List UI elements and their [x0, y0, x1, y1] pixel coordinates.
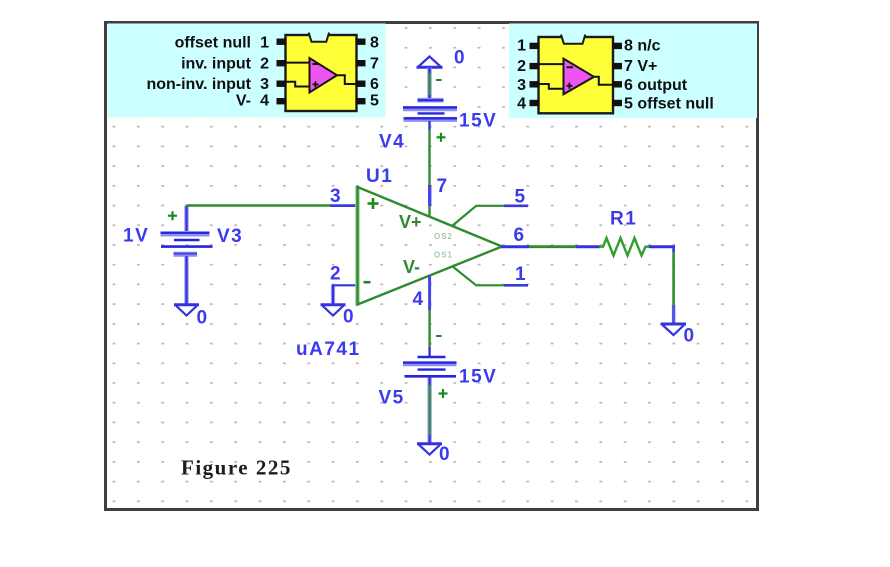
left DIP-8 inverting input trace: [286, 62, 310, 64]
wire op-amp pin 4: [428, 275, 431, 356]
left DIP-8 pin 1 stub: [277, 39, 287, 45]
svg-text:15V: 15V: [459, 367, 497, 388]
svg-text:V-: V-: [403, 257, 420, 277]
svg-text:6 output: 6 output: [624, 77, 688, 94]
ground at op-amp pin 2: [321, 305, 346, 316]
V5 plus mark: [439, 389, 448, 398]
wire V3 top lead: [184, 206, 188, 232]
ground below R1: [661, 324, 687, 335]
svg-text:5 offset null: 5 offset null: [624, 96, 714, 113]
svg-text:7: 7: [437, 176, 449, 197]
right DIP-8 left pin numbers 1-4: [517, 38, 526, 113]
svg-text:15V: 15V: [459, 111, 497, 132]
svg-text:0: 0: [343, 307, 355, 328]
right DIP-8 right pin labels: [624, 38, 714, 113]
svg-text:4: 4: [260, 93, 269, 110]
right DIP-8 output trace: [593, 77, 613, 85]
svg-text:6: 6: [514, 225, 526, 246]
right DIP-8 minus mark: [567, 66, 574, 68]
wire op-amp output pin 6: [501, 245, 600, 248]
svg-text:2: 2: [517, 58, 526, 75]
battery V3: [161, 233, 213, 255]
svg-text:1: 1: [517, 38, 526, 55]
svg-text:V3: V3: [217, 226, 243, 247]
svg-text:8: 8: [370, 35, 379, 52]
wire V5 to ground: [427, 378, 431, 444]
svg-text:4: 4: [517, 96, 526, 113]
left DIP-8 pin 2 stub: [277, 60, 287, 66]
left DIP-8 left pin numbers 1-4: [260, 35, 269, 110]
svg-text:V5: V5: [379, 388, 405, 409]
svg-text:U1: U1: [366, 166, 393, 187]
svg-text:OS2: OS2: [434, 232, 453, 241]
svg-text:8 n/c: 8 n/c: [624, 38, 661, 55]
wire corner down to ground: [672, 247, 675, 323]
svg-text:0: 0: [684, 326, 696, 347]
wire ground to V4: [427, 68, 431, 100]
right DIP-8 package body: [539, 37, 614, 113]
right DIP-8 pin 6 stub: [612, 81, 622, 87]
wire op-amp pin 5: [452, 206, 528, 226]
svg-text:4: 4: [413, 289, 425, 310]
svg-text:V+: V+: [399, 212, 422, 232]
U1 plus mark (pin 3 input): [368, 198, 379, 209]
right DIP-8 notch: [561, 35, 585, 44]
V5 minus mark: [436, 335, 442, 337]
left DIP-8 right pin numbers 8-5: [370, 35, 379, 110]
left DIP-8 pin 5 stub: [356, 98, 366, 104]
wire V4 to op-amp pin 7: [428, 121, 431, 217]
left DIP-8 plus mark: [313, 81, 319, 87]
right DIP-8 pin 4 stub: [530, 100, 540, 106]
left DIP-8 pin 3 stub: [277, 81, 287, 87]
svg-text:7: 7: [370, 56, 379, 73]
left DIP-8 pin 4 stub: [277, 98, 287, 104]
svg-text:uA741: uA741: [296, 339, 361, 360]
right DIP-8 non-inverting input trace: [539, 84, 564, 89]
left pinout cyan panel: [108, 24, 386, 118]
V4 minus mark: [436, 79, 442, 81]
ground below V5: [417, 444, 442, 455]
schematic frame border: [106, 23, 758, 510]
svg-text:inv. input: inv. input: [181, 56, 252, 73]
right pinout cyan panel: [509, 24, 757, 119]
svg-text:offset null: offset null: [175, 35, 251, 52]
svg-text:0: 0: [454, 48, 466, 69]
grid dots: [107, 24, 756, 508]
wire V3 to op-amp pin 3: [187, 204, 358, 207]
svg-text:Figure 225: Figure 225: [181, 456, 292, 480]
wire R1 to corner: [649, 245, 675, 248]
left DIP-8 package body U-left: [286, 35, 357, 111]
left DIP-8 pin 6 stub: [356, 81, 366, 87]
left DIP-8 pin name labels: [146, 35, 251, 110]
svg-text:6: 6: [370, 76, 379, 93]
left DIP-8 output trace: [336, 75, 356, 84]
right DIP-8 pin 2 stub: [530, 63, 540, 69]
ground above V4 (pointing up): [417, 57, 443, 68]
svg-text:5: 5: [370, 93, 379, 110]
left DIP-8 notch: [309, 33, 330, 42]
svg-text:non-inv. input: non-inv. input: [146, 76, 251, 93]
right DIP-8 pin 5 stub: [612, 100, 622, 106]
wire V3 bottom lead: [184, 256, 188, 304]
right DIP-8 op-amp triangle symbol: [564, 59, 595, 95]
right DIP-8 pin 8 stub: [612, 43, 622, 49]
resistor R1: [599, 238, 649, 256]
left DIP-8 minus mark: [313, 63, 319, 65]
svg-text:1: 1: [260, 35, 269, 52]
op-amp U1 triangle: [358, 186, 503, 306]
svg-text:R1: R1: [610, 209, 637, 230]
left DIP-8 op-amp triangle symbol: [310, 58, 338, 93]
right DIP-8 plus mark: [567, 83, 573, 89]
battery V4: [403, 100, 457, 119]
right DIP-8 pin 3 stub: [530, 81, 540, 87]
svg-text:7 V+: 7 V+: [624, 58, 657, 75]
right DIP-8 pin 7 stub: [612, 63, 622, 69]
svg-text:3: 3: [260, 76, 269, 93]
svg-text:3: 3: [517, 77, 526, 94]
svg-text:0: 0: [197, 308, 209, 329]
svg-text:0: 0: [439, 444, 451, 465]
right DIP-8 pin 1 stub: [530, 43, 540, 49]
left DIP-8 pin 7 stub: [356, 60, 366, 66]
svg-text:1: 1: [515, 264, 527, 285]
wire op-amp pin 1: [452, 266, 528, 285]
svg-text:1V: 1V: [123, 226, 149, 247]
svg-text:V-: V-: [236, 93, 251, 110]
svg-text:2: 2: [260, 56, 269, 73]
svg-text:2: 2: [330, 264, 342, 285]
V4 plus mark: [437, 133, 446, 142]
U1 minus mark (pin 2 input): [364, 281, 371, 284]
left DIP-8 pin 8 stub: [356, 39, 366, 45]
svg-text:3: 3: [330, 186, 342, 207]
left DIP-8 non-inverting input trace: [286, 82, 310, 87]
wire ground to op-amp pin 2: [332, 285, 357, 303]
battery V5: [403, 357, 457, 376]
right DIP-8 inverting input trace: [539, 63, 564, 65]
battery V3 positive mark: [168, 211, 177, 220]
ground below V3: [174, 305, 199, 316]
svg-text:V4: V4: [379, 132, 405, 153]
svg-text:OS1: OS1: [434, 251, 453, 260]
svg-text:5: 5: [515, 187, 527, 208]
